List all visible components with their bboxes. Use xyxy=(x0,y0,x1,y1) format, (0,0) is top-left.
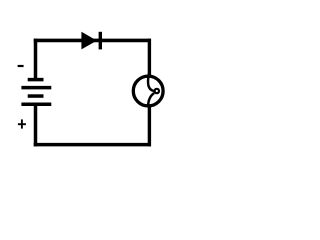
battery positive terminal label + xyxy=(18,119,26,128)
wire left lower (battery positive to bottom corner) xyxy=(34,104,38,146)
battery negative terminal label - xyxy=(18,65,24,67)
wire bottom (battery + to lamp return) xyxy=(34,143,151,147)
diode D1 (anode left, cathode right) xyxy=(81,32,100,50)
wire right upper (diode cathode to lamp top) xyxy=(148,39,151,77)
wire top (diode net, battery - to lamp) xyxy=(34,39,151,43)
wire right lower (lamp bottom to bottom corner) xyxy=(148,106,151,147)
wire left upper (top corner to battery negative) xyxy=(34,39,38,80)
battery (two-cell, negative up) xyxy=(21,80,51,105)
lamp L1 (bulb with looped filament) xyxy=(133,74,163,108)
